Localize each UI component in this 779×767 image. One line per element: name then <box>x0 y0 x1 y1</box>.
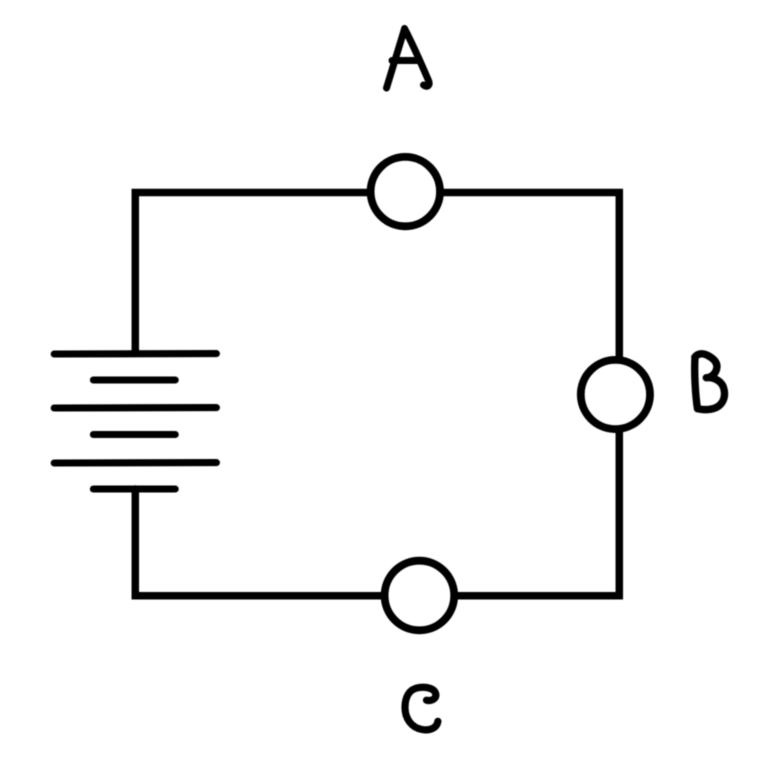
wire: top rail from ammeter A to top-right corner, then down to ammeter B <box>444 193 619 359</box>
node label C <box>405 687 438 730</box>
ammeter C (circle) <box>385 561 455 631</box>
battery BT1: long plate 3 <box>54 459 216 466</box>
battery BT1: short plate 2 <box>93 431 175 438</box>
wire: right rail from ammeter B down to bottom-right corner, then bottom rail to ammeter C <box>458 431 620 596</box>
battery BT1: long plate 2 <box>54 404 216 411</box>
wire: battery positive terminal up to top-left corner, then top rail to ammeter A <box>135 193 367 354</box>
ammeter A (circle) <box>371 157 440 226</box>
node label A <box>387 29 430 89</box>
battery BT1: long plate 1 (positive, top) <box>54 350 216 357</box>
node label B <box>695 354 725 410</box>
battery BT1: short plate 3 (negative, bottom) <box>93 485 175 492</box>
ammeter B (circle) <box>581 360 650 429</box>
battery BT1: short plate 1 <box>93 376 175 383</box>
wire: bottom rail from ammeter C to bottom-left corner, then up to battery negative terminal <box>135 489 381 596</box>
